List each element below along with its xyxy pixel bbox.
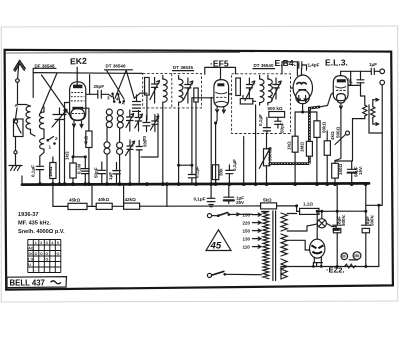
T1 trimmer secondary	[183, 78, 193, 103]
BELL 437 title box	[7, 277, 67, 288]
electrolytic 1uF 25V	[224, 184, 234, 203]
svg-text:30k: 30k	[219, 168, 224, 176]
svg-text:1936-37: 1936-37	[18, 212, 39, 218]
svg-text:MF. 435 kHz.: MF. 435 kHz.	[18, 221, 51, 227]
svg-text:O: O	[35, 252, 38, 256]
mains switch bottom	[207, 271, 261, 277]
resistor 1M grid leak	[306, 141, 312, 156]
svg-text:150: 150	[243, 229, 251, 234]
capacitor 0,1uF screen	[179, 98, 196, 185]
svg-text:45: 45	[210, 241, 222, 252]
AVC feed wires	[53, 185, 68, 207]
tube EK2 top cap	[73, 85, 82, 89]
svg-text:2: 2	[40, 241, 42, 245]
transformer secondary heater bottom	[281, 259, 287, 279]
osc fixed cap stack	[133, 95, 141, 111]
ground	[9, 166, 22, 171]
T2 trimmer secondary	[272, 78, 282, 101]
svg-text:110: 110	[243, 245, 251, 250]
fuse bullet 250	[353, 252, 361, 260]
fuse bullet 30	[341, 253, 348, 260]
cathode junction wire	[73, 156, 85, 158]
svg-text:1,4pF: 1,4pF	[308, 63, 320, 68]
svg-text:1μF: 1μF	[108, 172, 113, 180]
zigzag resistor tone 2	[371, 107, 375, 118]
EL3 screen wire	[348, 71, 361, 85]
antenna	[14, 61, 25, 105]
wire T2 secondary to EB4 diode	[282, 62, 297, 74]
tube EF5 cathode arrows	[216, 107, 226, 113]
antenna coil L3	[40, 139, 44, 150]
svg-text:2MΩ: 2MΩ	[48, 166, 53, 176]
EL3 cathode wire	[335, 109, 341, 161]
svg-text:250: 250	[243, 213, 251, 218]
svg-text:1kΩ: 1kΩ	[287, 141, 292, 150]
svg-text:0,1μF: 0,1μF	[194, 197, 206, 202]
EF5 top cap wire	[205, 67, 236, 79]
zigzag resistor tone 1	[363, 105, 367, 116]
T1 damping resistor	[145, 78, 150, 96]
svg-text:5kΩ: 5kΩ	[263, 198, 272, 203]
B+ line to right	[167, 205, 261, 207]
svg-text:5: 5	[57, 241, 59, 245]
tube EF5 grids	[215, 92, 228, 103]
svg-text:50pF: 50pF	[280, 122, 285, 133]
tube EL3 cathode arrow	[339, 103, 342, 109]
tube EB4 cathode arrows	[297, 96, 307, 102]
svg-text:500V.: 500V.	[341, 215, 346, 226]
svg-text:0,1M: 0,1M	[76, 164, 81, 174]
svg-text:1,1Ω: 1,1Ω	[303, 202, 313, 207]
svg-text:500V.: 500V.	[370, 215, 375, 226]
svg-text:E.L.3.: E.L.3.	[325, 58, 348, 68]
tube EB4 envelope	[293, 75, 312, 104]
svg-text:500 kΩ: 500 kΩ	[268, 106, 283, 111]
cap 1uF osc	[113, 163, 121, 185]
svg-text:25V: 25V	[236, 200, 244, 205]
shield hook	[269, 162, 272, 165]
svg-text:150Ω: 150Ω	[338, 163, 343, 175]
tube EK2 cathode arrows	[73, 121, 84, 128]
padder box	[141, 114, 158, 157]
T2 damping resistor	[236, 78, 241, 96]
tube EL3 grids	[335, 87, 346, 91]
EK2 top cap wire	[76, 67, 78, 84]
mains switch top	[207, 213, 239, 218]
T1 trimmer primary	[150, 78, 160, 104]
padder trimmer	[151, 115, 159, 132]
resistor 1k EB4	[292, 112, 298, 185]
svg-text:0,1μF: 0,1μF	[258, 114, 263, 126]
tube EL3 top band	[337, 79, 346, 82]
tone pot arrow	[335, 131, 350, 145]
svg-text:Snelh. 4000Ω p.V.: Snelh. 4000Ω p.V.	[18, 229, 65, 235]
T1 primary coil	[163, 79, 167, 102]
tube EK2 grids	[71, 93, 85, 114]
wire switch to T1	[134, 93, 147, 98]
IF transformer T1 box	[143, 74, 202, 108]
antenna coil L2	[39, 112, 44, 129]
svg-text:U: U	[28, 263, 31, 267]
top horizontal wire	[33, 72, 143, 75]
pilot lamp	[317, 219, 326, 228]
svg-text:30: 30	[342, 255, 346, 259]
T1 down wires	[146, 95, 148, 120]
svg-text:45kΩ: 45kΩ	[69, 198, 81, 203]
svg-text:50kΩ: 50kΩ	[322, 121, 327, 133]
transformer core	[273, 211, 276, 281]
bus left stub	[21, 176, 23, 185]
EB4 cathode junction wires	[295, 104, 317, 112]
wire A to coil	[18, 105, 31, 107]
T2 primary coil	[260, 79, 264, 103]
resistor 4k (EK2 anode)	[83, 108, 92, 184]
EK2 cathode wire	[73, 127, 75, 157]
tube EF5 envelope	[214, 80, 229, 107]
heater ground bar	[333, 228, 340, 231]
T2 trimmer primary	[245, 78, 255, 101]
svg-text:1μF: 1μF	[348, 78, 353, 86]
schematic border frame	[5, 50, 393, 290]
svg-text:15V.: 15V.	[358, 166, 363, 175]
svg-text:E.B4.: E.B4.	[275, 58, 297, 68]
resistor 50k	[314, 112, 320, 185]
EL3 grid wire	[320, 93, 333, 107]
svg-text:O: O	[57, 252, 60, 256]
svg-text:4kΩ: 4kΩ	[330, 131, 335, 140]
wire box2 bottom to bus	[243, 137, 245, 185]
B+ junction right	[337, 205, 382, 211]
T1 secondary coil	[179, 79, 183, 102]
padder cap fixed	[143, 116, 150, 132]
resistor 4k	[324, 131, 330, 185]
svg-text:500kΩ: 500kΩ	[268, 147, 273, 161]
EB4 top cap wires + cap 1,4pF	[297, 62, 306, 76]
electrolytic 8uF 500V no2	[362, 183, 371, 266]
svg-text:O: O	[46, 257, 49, 261]
svg-text:AG: AG	[28, 246, 34, 250]
shielded wire from pot to EL3 grid	[272, 107, 320, 164]
svg-text:4: 4	[51, 241, 53, 245]
EK2 left wire	[65, 103, 70, 185]
band switch cross wires	[41, 73, 70, 115]
osc trimmer cap 2	[135, 111, 143, 132]
svg-text:500Ω: 500Ω	[336, 126, 341, 138]
resistor 30k EF5 cathode	[212, 165, 218, 185]
svg-text:DT 36535: DT 36535	[173, 65, 193, 70]
AVC taps to bus	[92, 185, 124, 206]
svg-text:50pF: 50pF	[94, 167, 99, 178]
cap 50pF osc	[98, 162, 106, 185]
transformer primary winding	[263, 212, 269, 279]
svg-text:EK2: EK2	[70, 56, 87, 67]
tube EL3 envelope	[333, 76, 348, 103]
IF transformer T2 box	[232, 74, 291, 134]
antenna jack / switch box	[14, 108, 24, 137]
svg-text:220: 220	[243, 221, 251, 226]
wire box2 to EB4	[291, 87, 294, 89]
output terminal 1	[380, 69, 385, 74]
svg-text:LG: LG	[28, 257, 33, 261]
bottom return wire	[281, 266, 379, 268]
svg-text:42kΩ: 42kΩ	[125, 197, 137, 202]
transformer secondary HT	[281, 234, 287, 256]
ground lead	[14, 137, 17, 166]
svg-text:40kΩ: 40kΩ	[98, 197, 110, 202]
svg-text:DT 36540: DT 36540	[254, 63, 274, 68]
svg-text:0,1μF: 0,1μF	[195, 166, 200, 178]
resistor 150 EL3 cathode	[332, 161, 339, 185]
svg-text:O: O	[46, 252, 49, 256]
svg-text:1μF: 1μF	[369, 62, 377, 67]
svg-text:0,1μF: 0,1μF	[232, 159, 237, 171]
osc padder trimmers lower	[126, 140, 135, 185]
osc coil upper left	[106, 109, 112, 128]
variable tuning capacitor C1	[52, 108, 67, 185]
svg-text:1kΩ: 1kΩ	[64, 151, 69, 160]
svg-text:O: O	[40, 252, 43, 256]
osc trimmer cap 1	[126, 110, 134, 131]
chassis ground bus	[22, 183, 369, 184]
heater wires	[287, 213, 296, 215]
capacitor EK2 cathode	[81, 157, 89, 185]
osc coil lower right	[117, 128, 123, 184]
tube EF5 top cap	[217, 83, 224, 86]
wire top to 25pF	[89, 75, 91, 95]
T2 secondary coil	[268, 79, 272, 103]
antenna coil L1	[26, 106, 31, 129]
rectifier tube EZ2	[310, 239, 325, 258]
T2 down wire / AVC	[255, 105, 257, 185]
volume potentiometer 500k	[259, 134, 270, 185]
right rail wire	[379, 85, 382, 267]
osc switch cross wires	[107, 70, 135, 99]
T1 right small box	[194, 88, 198, 102]
transformer secondary heater top	[281, 213, 287, 231]
band table	[28, 240, 61, 273]
output terminal 2	[380, 80, 385, 85]
EZ2 base wires	[287, 211, 322, 266]
tube EB4 diode plates	[296, 83, 306, 90]
svg-text:0,1μF: 0,1μF	[31, 165, 36, 177]
triangle mark 45	[206, 230, 231, 251]
detector cap 0,1uF	[263, 117, 270, 133]
wire EF5 to box2	[229, 93, 232, 95]
svg-text:250: 250	[354, 254, 360, 258]
svg-text:4kΩ: 4kΩ	[84, 135, 89, 144]
svg-text:1MΩ: 1MΩ	[300, 142, 305, 152]
svg-text:130: 130	[243, 237, 251, 242]
osc coil upper right	[117, 110, 123, 129]
EF5 screen lead	[192, 97, 214, 99]
band switch contacts 1,2	[47, 137, 56, 145]
EF5 cathode wires	[210, 97, 212, 184]
hum resistor	[345, 260, 358, 268]
svg-text:70: 70	[142, 135, 147, 141]
tube EK2 envelope	[70, 82, 86, 121]
electrolytic 8uF 500V no1	[333, 184, 342, 267]
svg-text:1: 1	[35, 241, 37, 245]
EL3 anode wire to output	[341, 71, 372, 75]
capacitor 0,1uF antenna	[36, 162, 43, 185]
T2 small box	[240, 99, 253, 104]
electrolytic 50uF 15V	[335, 161, 356, 185]
svg-text:DT 36546: DT 36546	[106, 64, 126, 69]
svg-text:BELL 437: BELL 437	[10, 278, 45, 287]
capacitor 0,1uF EF5 cathode	[226, 165, 233, 185]
resistor 2M	[50, 157, 56, 185]
detector cap 50pF	[275, 117, 281, 128]
svg-text:25pF: 25pF	[94, 84, 105, 89]
osc coil lower left	[104, 128, 110, 185]
bus junction dots	[38, 182, 42, 186]
junction wire mid right	[369, 105, 382, 133]
resistor 1k EK2 cathode	[70, 157, 76, 185]
osc switch contacts 3,4	[111, 93, 125, 104]
svg-text:GG: GG	[28, 252, 34, 256]
svg-text:3: 3	[46, 241, 48, 245]
feedback wire left	[353, 116, 365, 161]
